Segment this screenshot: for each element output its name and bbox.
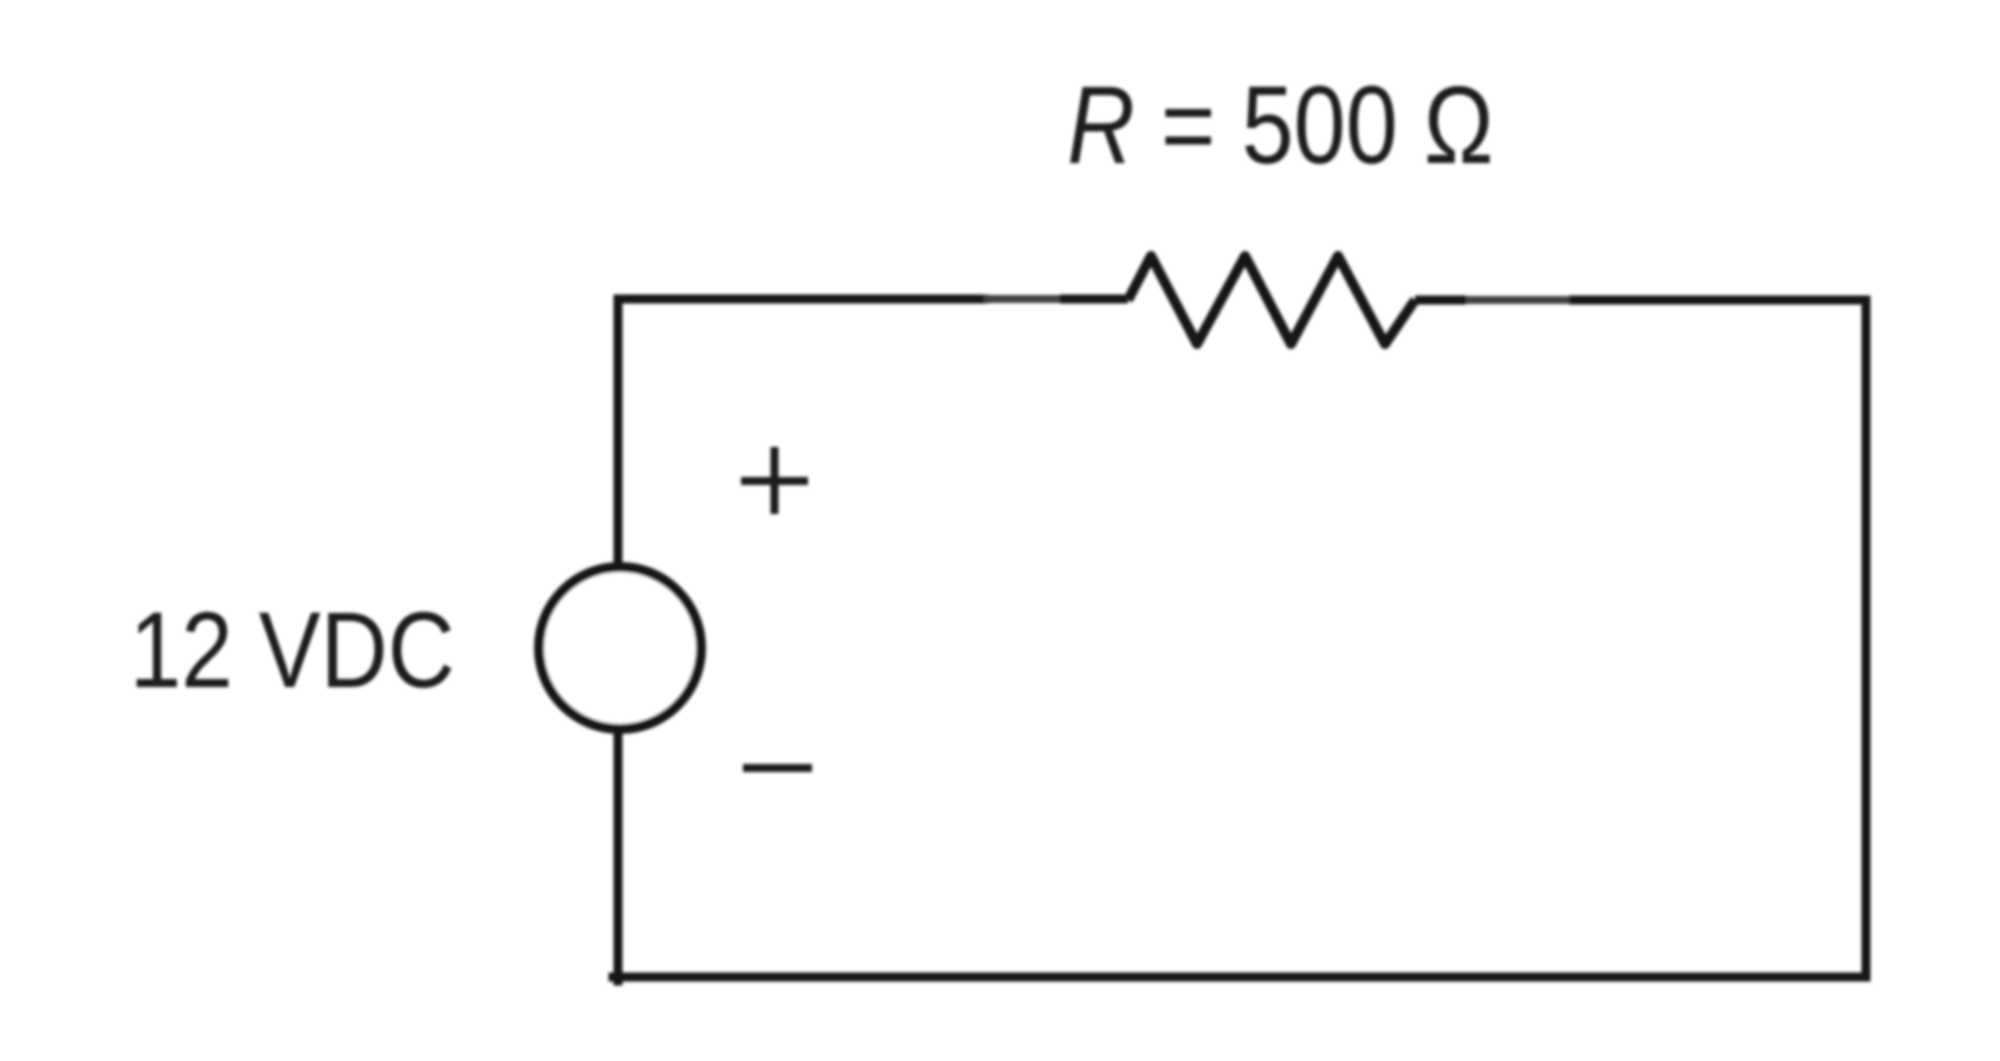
svg-text:R = 500 Ω: R = 500 Ω: [1067, 64, 1493, 187]
plus polarity mark: [741, 447, 808, 514]
wire top dark to resistor: [1060, 295, 1128, 304]
resistor R zigzag: [1128, 256, 1415, 344]
minus polarity mark: [743, 764, 812, 772]
svg-text:12 VDC: 12 VDC: [130, 590, 455, 710]
voltage source V1 circle: [539, 567, 701, 729]
wire top gray segment left: [984, 295, 1060, 303]
wire top gray segment right: [1466, 296, 1574, 304]
wire top-left segment: [618, 299, 984, 303]
wire left lower (source to bottom corner): [614, 730, 623, 981]
wire resistor to gray segment right: [1415, 296, 1466, 305]
wire left upper (top corner to source): [614, 299, 623, 567]
wire top right segment + right side + bottom: [613, 300, 1866, 977]
